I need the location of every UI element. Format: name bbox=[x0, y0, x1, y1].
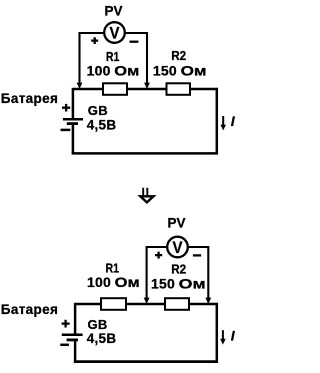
svg-text:Ом: Ом bbox=[114, 62, 139, 78]
svg-text:100: 100 bbox=[87, 62, 111, 78]
svg-text:GB: GB bbox=[88, 103, 108, 118]
battery GB short plate bbox=[67, 122, 78, 125]
svg-text:100: 100 bbox=[87, 274, 111, 290]
battery GB long plate bbox=[62, 334, 83, 337]
svg-text:PV: PV bbox=[104, 4, 122, 19]
wire left side upper bbox=[72, 88, 75, 118]
arrowhead right arm bbox=[205, 298, 211, 304]
double down arrow bbox=[140, 188, 153, 203]
wire voltmeter right arm bbox=[125, 33, 147, 84]
minus at battery bbox=[60, 344, 69, 347]
wire left side lower bbox=[72, 125, 75, 155]
svg-text:Ом: Ом bbox=[179, 275, 206, 291]
wire top right segment bbox=[190, 88, 218, 91]
resistor R1 bbox=[101, 298, 126, 310]
wire left side upper bbox=[74, 303, 77, 334]
resistor R2 bbox=[167, 83, 191, 95]
svg-text:PV: PV bbox=[167, 215, 185, 230]
current arrow I bbox=[222, 330, 224, 340]
wire bottom bbox=[72, 152, 218, 155]
svg-text:V: V bbox=[110, 24, 121, 43]
arrowhead left arm bbox=[77, 83, 83, 89]
arrowhead left arm bbox=[144, 298, 150, 304]
svg-text:I: I bbox=[231, 113, 236, 129]
wire right side bbox=[216, 88, 219, 154]
wire bottom bbox=[74, 360, 218, 363]
wire between R1 and R2 bbox=[126, 303, 165, 306]
minus at battery bbox=[61, 129, 71, 132]
resistor R2 bbox=[165, 298, 189, 310]
svg-text:V: V bbox=[173, 238, 184, 257]
plus at battery bbox=[62, 320, 70, 328]
wire top right segment bbox=[189, 303, 218, 306]
wire right side bbox=[216, 303, 219, 363]
wire voltmeter right arm bbox=[188, 247, 209, 299]
wire top left segment bbox=[75, 303, 101, 306]
voltmeter PV bbox=[104, 22, 125, 43]
plus at voltmeter bbox=[155, 252, 162, 259]
minus at voltmeter bbox=[130, 41, 139, 43]
svg-text:R2: R2 bbox=[171, 261, 186, 276]
svg-text:150: 150 bbox=[151, 275, 175, 291]
svg-text:GB: GB bbox=[88, 317, 108, 332]
voltmeter PV bbox=[167, 237, 188, 258]
wire voltmeter left arm bbox=[80, 33, 105, 84]
svg-text:Ом: Ом bbox=[115, 274, 140, 290]
plus at voltmeter bbox=[91, 37, 98, 44]
wire voltmeter left arm bbox=[147, 247, 168, 299]
svg-text:4,5В: 4,5В bbox=[87, 117, 117, 132]
svg-text:R2: R2 bbox=[171, 48, 186, 63]
plus at battery bbox=[62, 104, 70, 112]
wire left side lower bbox=[74, 341, 77, 363]
wire between R1 and R2 bbox=[127, 88, 167, 91]
svg-text:Батарея: Батарея bbox=[1, 91, 58, 106]
svg-text:I: I bbox=[231, 328, 236, 344]
minus at voltmeter bbox=[193, 254, 201, 256]
battery GB long plate bbox=[63, 118, 83, 121]
arrowhead right arm bbox=[144, 83, 150, 89]
current arrow I bbox=[222, 116, 224, 126]
svg-text:150: 150 bbox=[153, 63, 177, 79]
svg-text:4,5В: 4,5В bbox=[87, 331, 117, 346]
wire top left segment bbox=[73, 88, 103, 91]
battery GB short plate bbox=[67, 338, 78, 341]
svg-text:Ом: Ом bbox=[181, 63, 207, 79]
resistor R1 bbox=[103, 83, 127, 95]
svg-text:Батарея: Батарея bbox=[1, 302, 58, 317]
